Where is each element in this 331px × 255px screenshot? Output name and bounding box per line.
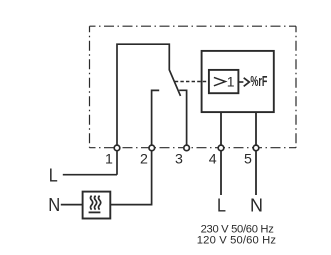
heat wave 2 (94, 196, 96, 210)
svg-text:5: 5 (244, 152, 252, 168)
sensor logic box ">1" (209, 70, 239, 93)
svg-text:N: N (250, 194, 263, 215)
wire L to terminal 1 (63, 174, 117, 176)
svg-text:%rF: %rF (250, 73, 267, 90)
svg-text:N: N (48, 194, 60, 215)
svg-text:L: L (49, 165, 58, 186)
">" symbol in logic box (214, 77, 226, 85)
terminal 4 (218, 145, 224, 151)
output arrow (238, 81, 243, 83)
svg-text:1: 1 (105, 152, 113, 168)
wire N to heater (61, 204, 83, 206)
svg-text:120 V 50/60 Hz: 120 V 50/60 Hz (197, 235, 277, 247)
svg-text:2: 2 (140, 152, 148, 168)
dashed actuator link (175, 81, 209, 83)
svg-text:L: L (217, 194, 226, 215)
terminal 1 (114, 145, 120, 151)
wire terminal 4 to L (220, 112, 222, 195)
heater underline (89, 211, 101, 213)
contact of terminal 2 and wire to heater (110, 90, 159, 204)
svg-text:4: 4 (209, 152, 217, 168)
device enclosure boundary right edge (295, 26, 297, 148)
terminal 3 (184, 145, 190, 151)
switch S1 common outline (from terminal 1) with lever (117, 44, 181, 175)
heat wave 3 (98, 196, 100, 210)
contact of terminal 3 (179, 90, 186, 147)
terminal 2 (149, 145, 155, 151)
terminal 5 (253, 145, 259, 151)
svg-text:3: 3 (175, 152, 183, 168)
device enclosure boundary top edge (90, 25, 297, 27)
heat wave 1 (90, 196, 92, 210)
controller box U1 (202, 51, 274, 112)
device enclosure boundary left edge (89, 26, 91, 148)
device enclosure boundary bottom edge (90, 147, 297, 149)
svg-text:1: 1 (227, 74, 235, 90)
wire terminal 5 to N (255, 112, 257, 195)
heater / humidifier element box (83, 192, 111, 219)
